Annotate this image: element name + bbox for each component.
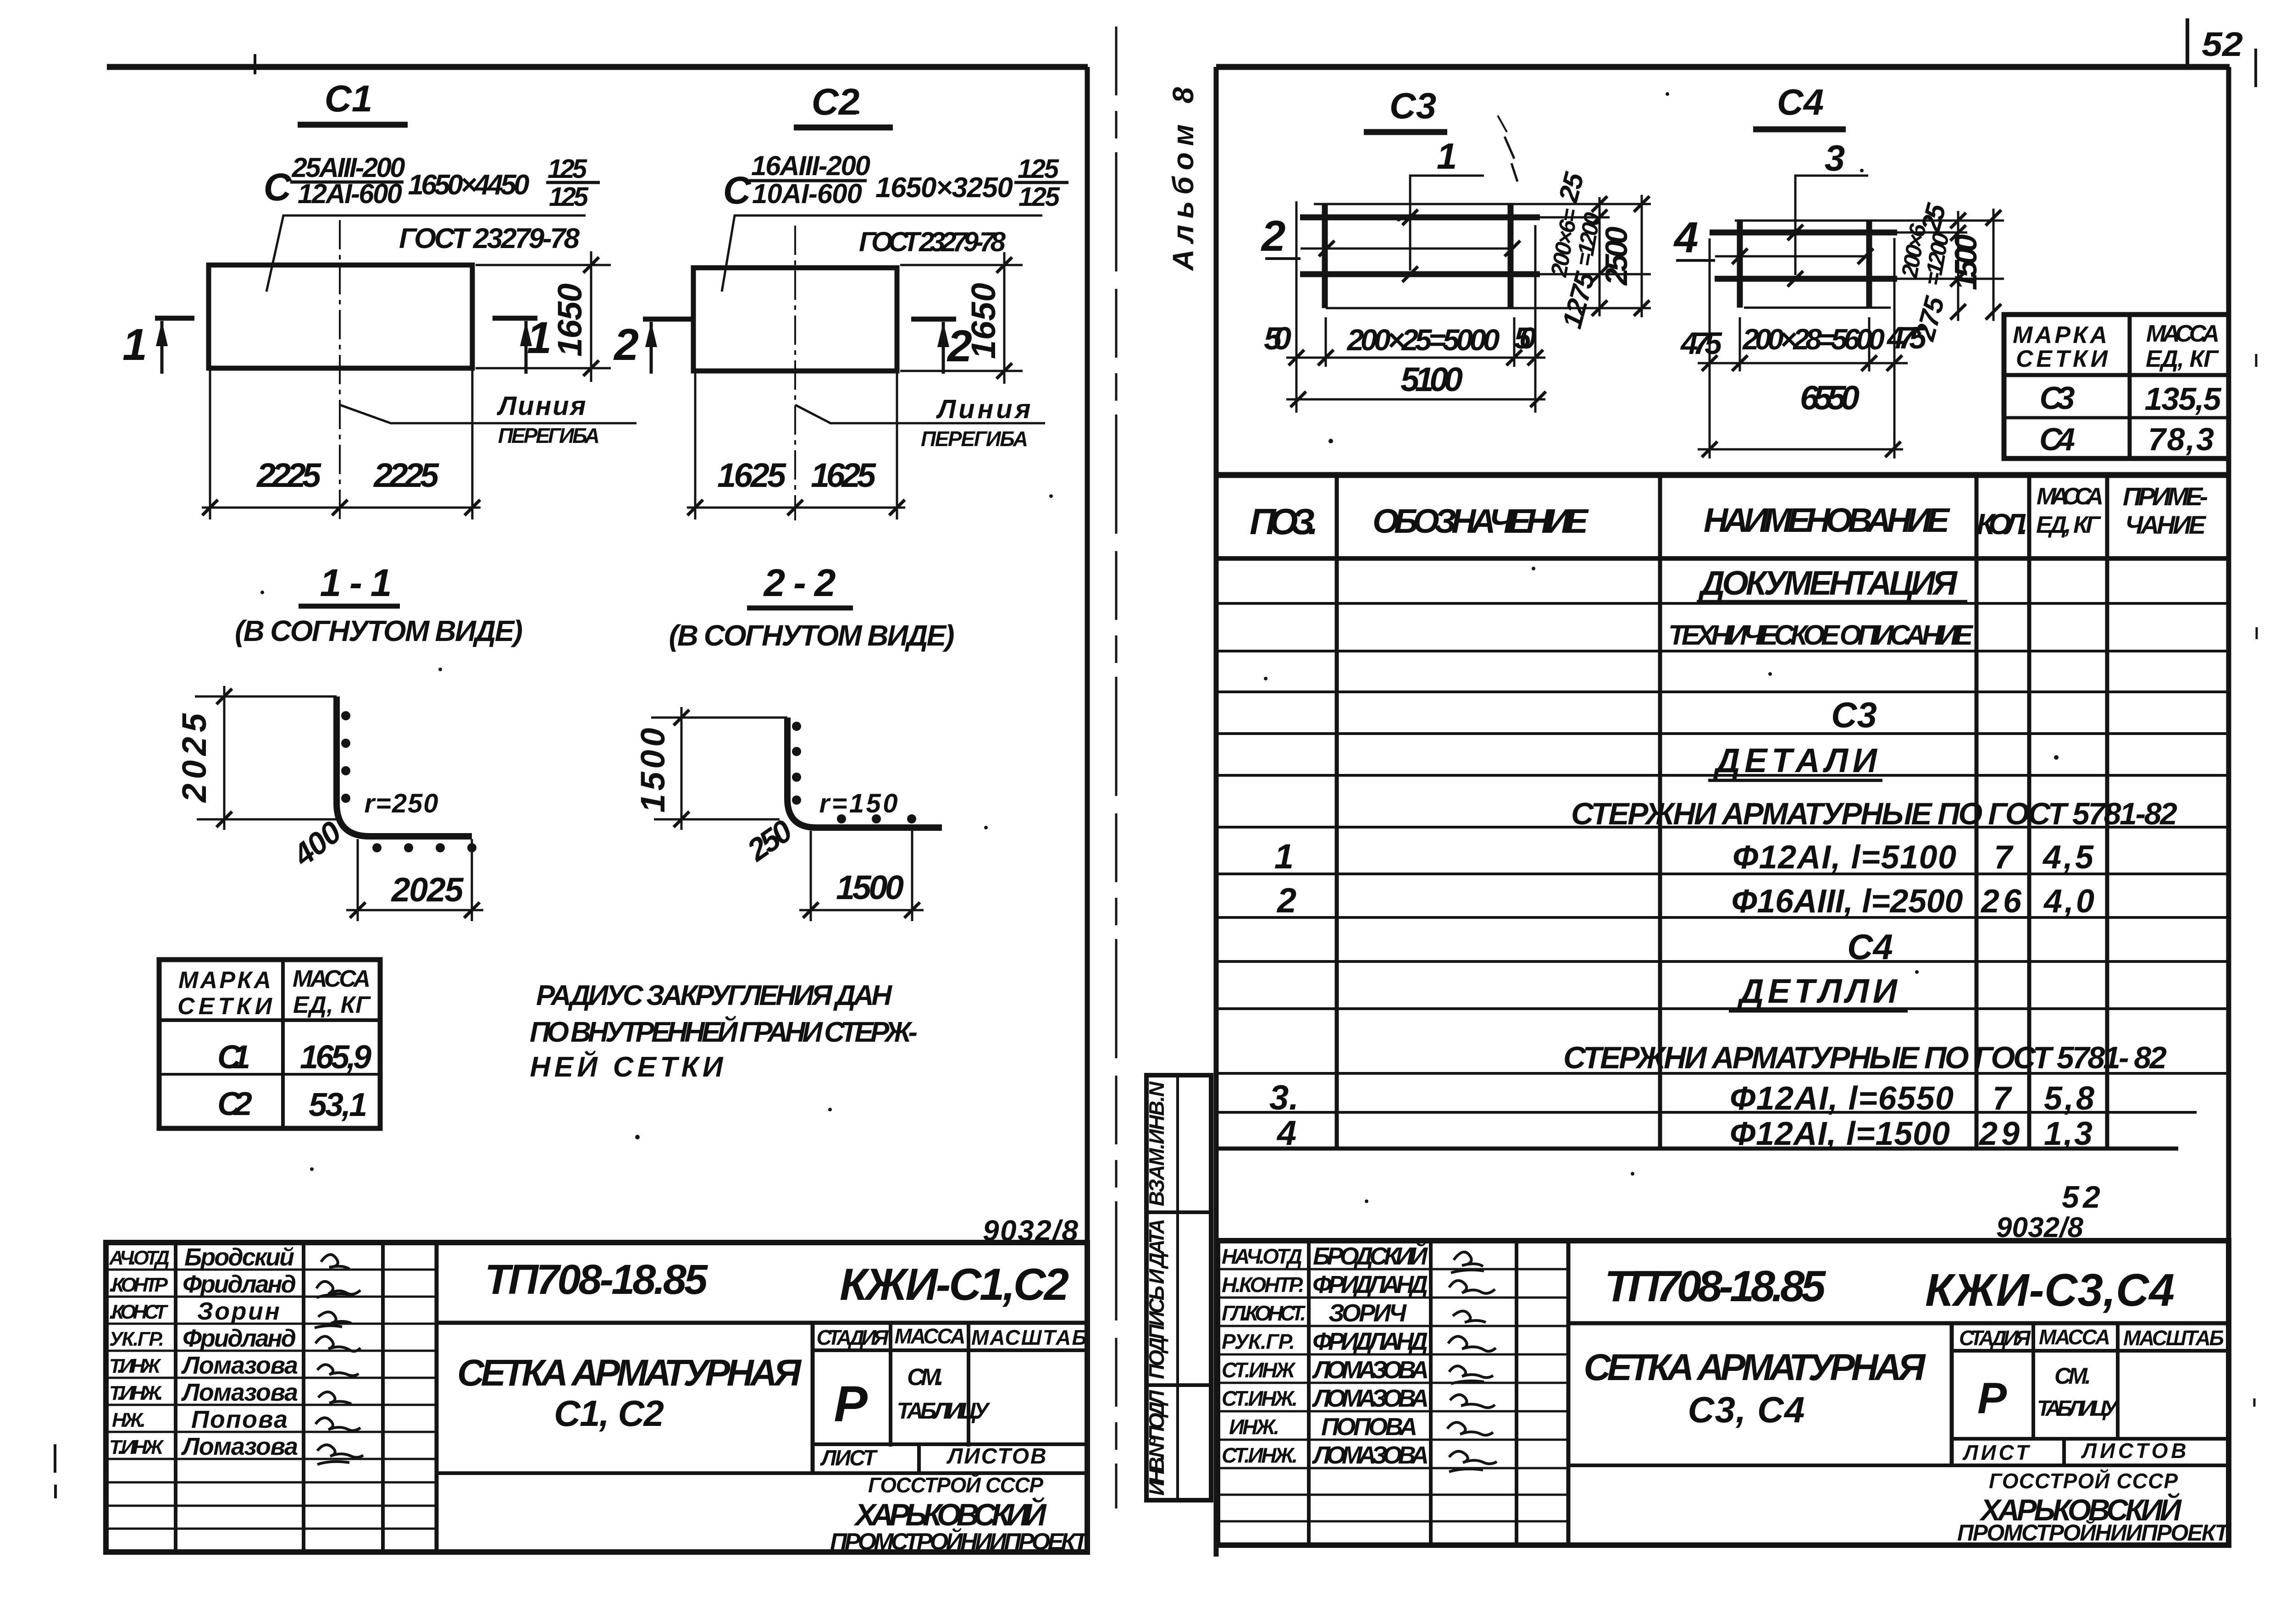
dimension 1650 right of C1 [476, 251, 611, 382]
svg-text:1: 1 [1274, 837, 1294, 876]
svg-text:4,5: 4,5 [2042, 839, 2094, 876]
right page right border [2226, 67, 2231, 1545]
svg-text:12AI-600: 12AI-600 [298, 178, 402, 209]
svg-text:C1: C1 [217, 1039, 250, 1076]
svg-text:ГОССТРОЙ СССР: ГОССТРОЙ СССР [868, 1473, 1043, 1497]
svg-text:МАССА: МАССА [293, 966, 371, 992]
svg-text:.КОНСТ: .КОНСТ [109, 1301, 168, 1323]
svg-text:С1, С2: С1, С2 [554, 1393, 664, 1434]
svg-text:1650: 1650 [964, 283, 1002, 359]
svg-text:1: 1 [122, 320, 147, 370]
svg-text:СЕТКА АРМАТУРНАЯ: СЕТКА АРМАТУРНАЯ [1584, 1347, 1926, 1388]
svg-text:СТ.ИНЖ.: СТ.ИНЖ. [1222, 1386, 1298, 1410]
svg-text:Ломазова: Ломазова [181, 1352, 298, 1379]
scan dashes lower left edge [54, 1444, 56, 1473]
dimension 1500 horizontal 2-2 [799, 831, 924, 921]
svg-text:ЕД, КГ: ЕД, КГ [2146, 346, 2219, 372]
fold line label C1 (Линия перегиба) [340, 391, 637, 447]
svg-text:165,9: 165,9 [300, 1039, 371, 1076]
svg-text:МАРКА: МАРКА [178, 967, 271, 994]
svg-text:Т.ИНЖ: Т.ИНЖ [109, 1436, 164, 1458]
cross-bar dots 1-1 horizontal leg [372, 843, 476, 852]
cross-bar dots 1-1 vertical leg [341, 711, 350, 803]
svg-text:ГОССТРОЙ СССР: ГОССТРОЙ СССР [1989, 1469, 2178, 1493]
right page left border [1214, 67, 1219, 1557]
mesh C3 cross bar 2b [1508, 205, 1514, 308]
mesh C4 longitudinal bar 3a [1710, 230, 1897, 236]
section mark 2 left of C2 [613, 319, 692, 374]
bent bar section 2-2 [787, 718, 942, 828]
svg-text:Ломазова: Ломазова [181, 1379, 298, 1406]
svg-text:НЖ.: НЖ. [112, 1409, 146, 1431]
svg-text:4: 4 [1276, 1114, 1296, 1153]
stage/mass/scale columns right page [1952, 1323, 2229, 1465]
section mark 1 left of C1 [122, 318, 194, 374]
role labels right page [1222, 1244, 1306, 1467]
label GOST 23279-78 under C2 formula with leader [722, 215, 1042, 292]
big section divider line under TP row [437, 1321, 1087, 1325]
cross-bar dots 2-2 vertical leg [792, 722, 801, 805]
row: Details heading 2 [1729, 972, 1908, 1011]
svg-text:78,3: 78,3 [2148, 421, 2214, 457]
svg-text:СТЕРЖНИ АРМАТУРНЫЕ ПО ГОСТ 578: СТЕРЖНИ АРМАТУРНЫЕ ПО ГОСТ 5781- 82 [1563, 1040, 2167, 1075]
mesh C3 longitudinal bar 1a [1300, 215, 1540, 221]
svg-text:4: 4 [1673, 213, 1699, 262]
svg-text:Т.ИНЖ: Т.ИНЖ [109, 1355, 161, 1377]
svg-text:1: 1 [1437, 136, 1457, 177]
svg-text:1650×4450: 1650×4450 [408, 169, 530, 201]
svg-text:Т.ИНЖ.: Т.ИНЖ. [109, 1382, 163, 1404]
svg-text:Фридланд: Фридланд [183, 1325, 296, 1352]
svg-text:ПО ВНУТРЕННЕЙ ГРАНИ СТЕРЖ-: ПО ВНУТРЕННЕЙ ГРАНИ СТЕРЖ- [530, 1016, 918, 1048]
svg-text:Линия: Линия [497, 391, 586, 421]
svg-text:C3: C3 [1831, 695, 1877, 735]
svg-text:1-1: 1-1 [320, 561, 392, 604]
svg-text:Р: Р [1977, 1374, 2007, 1423]
spec table frame [1217, 475, 2229, 1149]
organisation cell right page [1957, 1469, 2231, 1546]
svg-text:МАССА: МАССА [895, 1324, 966, 1348]
signatures right page [1447, 1252, 1497, 1472]
svg-text:ТЕХНИЧЕСКОЕ ОПИСАНИЕ: ТЕХНИЧЕСКОЕ ОПИСАНИЕ [1668, 619, 1974, 651]
svg-text:1650×3250: 1650×3250 [875, 172, 1013, 204]
svg-text:Ф12АI, l=1500: Ф12АI, l=1500 [1730, 1116, 1950, 1152]
section mark 1 right of C1 [493, 313, 552, 374]
svg-text:ВЗАМ.ИНВ.N: ВЗАМ.ИНВ.N [1145, 1081, 1168, 1206]
mesh C3 cross bar 2a [1322, 205, 1328, 308]
name row lines left page [106, 1270, 437, 1529]
svg-text:ТП708-18.85: ТП708-18.85 [1605, 1262, 1827, 1311]
C3 dimension 50|200x25=5000|50 [1264, 317, 1545, 367]
svg-text:СЕТКА АРМАТУРНАЯ: СЕТКА АРМАТУРНАЯ [457, 1352, 802, 1394]
list row left page [820, 1444, 1046, 1473]
svg-text:C4: C4 [1847, 927, 1893, 967]
svg-text:6550: 6550 [1800, 379, 1860, 417]
title block frame left page [106, 1243, 1087, 1552]
svg-text:1: 1 [527, 313, 552, 363]
C3 left extension line [1295, 201, 1298, 413]
svg-text:1650: 1650 [551, 283, 589, 357]
mesh C4 cross bar 4a [1737, 221, 1743, 308]
label GOST 23279-78 under C1 formula with leader into mesh [266, 215, 586, 292]
svg-text:ГОСТ 23279-78: ГОСТ 23279-78 [859, 226, 1006, 257]
svg-text:C4: C4 [2039, 421, 2075, 457]
mesh C4 longitudinal bar 3b [1715, 276, 1897, 282]
svg-text:1625: 1625 [717, 456, 787, 494]
svg-text:.КОНТР: .КОНТР [109, 1274, 168, 1296]
svg-text:ЧАНИЕ: ЧАНИЕ [2125, 510, 2207, 539]
svg-text:Ф16АIII, l=2500: Ф16АIII, l=2500 [1732, 883, 1963, 920]
dimension 2025 vertical 1-1 [175, 686, 337, 830]
fold line label C2 (Линия перегиба) [795, 394, 1045, 451]
svg-text:200×28=5600: 200×28=5600 [1742, 323, 1885, 356]
svg-text:3.: 3. [1269, 1078, 1299, 1117]
svg-text:АЧ.ОТД: АЧ.ОТД [109, 1247, 170, 1269]
svg-text:2025: 2025 [391, 871, 465, 909]
svg-text:C4: C4 [1777, 82, 1824, 122]
svg-text:1500: 1500 [836, 868, 904, 906]
svg-text:СТЕРЖНИ АРМАТУРНЫЕ ПО ГОСТ 578: СТЕРЖНИ АРМАТУРНЫЕ ПО ГОСТ 5781-82 [1571, 796, 2177, 831]
svg-text:C3: C3 [2040, 380, 2075, 416]
svg-text:СЕТКИ: СЕТКИ [177, 993, 273, 1020]
svg-text:ОБОЗНАЧЕНИЕ: ОБОЗНАЧЕНИЕ [1373, 502, 1589, 540]
dimension 2225+2225 under C1 [202, 368, 481, 519]
svg-text:ТП708-18.85: ТП708-18.85 [485, 1256, 709, 1303]
svg-text:50: 50 [1264, 320, 1291, 356]
svg-text:1625: 1625 [811, 456, 877, 494]
svg-text:ЛОМАЗОВА: ЛОМАЗОВА [1312, 1442, 1429, 1469]
svg-text:Зорин: Зорин [197, 1298, 280, 1325]
names right page [1312, 1242, 1429, 1469]
svg-text:125: 125 [549, 182, 589, 212]
role labels left page (cut at scan edge) [109, 1247, 170, 1458]
svg-text:БРОДСКИЙ: БРОДСКИЙ [1313, 1242, 1428, 1270]
row: Details heading 1 [1708, 741, 1882, 780]
svg-text:ФРИДЛАНД: ФРИДЛАНД [1312, 1271, 1428, 1298]
mesh C1 mark formula [264, 152, 600, 212]
svg-text:ТАБЛИЦУ: ТАБЛИЦУ [897, 1398, 991, 1424]
svg-text:C2: C2 [812, 81, 860, 123]
svg-text:2: 2 [613, 320, 639, 370]
svg-text:ПЕРЕГИБА: ПЕРЕГИБА [498, 424, 600, 447]
drawing name cell right page [1568, 1347, 2229, 1465]
svg-text:МАССА: МАССА [2146, 320, 2220, 347]
svg-text:ПОПОВА: ПОПОВА [1321, 1413, 1417, 1441]
svg-text:КЖИ-С1,С2: КЖИ-С1,С2 [840, 1259, 1069, 1309]
svg-text:НАЧ.ОТД: НАЧ.ОТД [1222, 1244, 1302, 1268]
C4 dimension 6550 [1698, 379, 1903, 457]
right page top border [1216, 64, 2230, 70]
svg-text:ИНЖ.: ИНЖ. [1229, 1415, 1279, 1439]
row: pos 3 bar Ф12АI L=6550 [1269, 1078, 2094, 1117]
svg-text:ЗОРИЧ: ЗОРИЧ [1328, 1299, 1407, 1327]
row: pos 4 bar Ф12АI L=1500 [1276, 1114, 2092, 1153]
svg-text:МАССА: МАССА [2037, 483, 2103, 510]
mesh C3 outline [1314, 204, 1584, 308]
svg-text:C3: C3 [1389, 85, 1436, 126]
svg-text:ЕД, КГ: ЕД, КГ [2036, 512, 2101, 538]
svg-text:C1: C1 [325, 78, 373, 120]
mesh C1 centre line (dash-dot) [339, 220, 341, 520]
svg-text:ЛОМАЗОВА: ЛОМАЗОВА [1312, 1356, 1429, 1384]
svg-text:ПОДПИСЬ И ДАТА: ПОДПИСЬ И ДАТА [1145, 1219, 1168, 1379]
svg-text:ПРОМСТРОЙНИИПРОЕКТ: ПРОМСТРОЙНИИПРОЕКТ [830, 1528, 1090, 1555]
svg-text:50: 50 [1514, 321, 1536, 355]
svg-text:МАРКА: МАРКА [2013, 322, 2107, 348]
svg-text:135,5: 135,5 [2145, 381, 2222, 417]
callout 3 (longitudinal bars C4) [1788, 138, 1868, 287]
cross-bar dots 2-2 horizontal leg [837, 814, 916, 823]
svg-text:Ф12АI, l=6550: Ф12АI, l=6550 [1730, 1080, 1954, 1117]
C4 right side extension lines [1897, 221, 2004, 279]
svg-text:ИНВ.N°ПОДЛ: ИНВ.N°ПОДЛ [1145, 1390, 1168, 1496]
svg-text:C: C [723, 169, 752, 212]
spec table row lines [1217, 603, 2229, 1149]
svg-text:200×25=5000: 200×25=5000 [1346, 323, 1500, 357]
organisation cell left page [830, 1473, 1090, 1555]
C3 chain dimension line (25 / 200x6=1200 / 1275) [1545, 169, 1607, 332]
stage/mass/scale columns left page [813, 1323, 1087, 1473]
svg-text:53,1: 53,1 [309, 1087, 367, 1123]
C4 left extension line [1709, 238, 1711, 458]
svg-text:ФРИДЛАНД: ФРИДЛАНД [1312, 1328, 1428, 1355]
svg-text:ДЕТАЛИ: ДЕТАЛИ [1713, 741, 1878, 779]
title C3 [1364, 85, 1447, 132]
dimension 2025 horizontal 1-1 [346, 839, 483, 921]
left page top border [107, 64, 1088, 70]
scan marks right edge [2254, 49, 2257, 87]
svg-text:7: 7 [1994, 839, 2014, 876]
signatures left page [315, 1254, 363, 1464]
svg-text:НЕЙ СЕТКИ: НЕЙ СЕТКИ [530, 1050, 724, 1083]
big section divider right page [1568, 1321, 2229, 1326]
svg-text:ПРИМЕ-: ПРИМЕ- [2123, 482, 2208, 511]
callout 4 (cross bars C4) [1673, 213, 1873, 264]
C3 right side extension lines [1534, 204, 1651, 308]
svg-text:ТАБЛИЦУ: ТАБЛИЦУ [2037, 1397, 2119, 1421]
scan specks [260, 92, 2059, 1203]
svg-text:7: 7 [1993, 1080, 2012, 1117]
svg-text:ГЛ.КОНСТ.: ГЛ.КОНСТ. [1222, 1301, 1306, 1325]
row: Documentation heading [1697, 564, 1967, 602]
svg-text:МАСШТАБ: МАСШТАБ [971, 1326, 1087, 1349]
names left page [181, 1243, 298, 1460]
C3 dimension 5100 [1286, 360, 1546, 407]
svg-text:Бродский: Бродский [184, 1243, 294, 1271]
svg-text:125: 125 [1018, 182, 1060, 212]
mesh C1 outline rectangle [209, 265, 472, 368]
note about bend radius [530, 980, 918, 1083]
mesh C4 outline [1735, 221, 1995, 308]
section mark 2 right of C2 [911, 319, 972, 374]
mesh C2 outline rectangle [693, 268, 897, 371]
svg-text:125: 125 [1018, 154, 1059, 184]
mesh C3 longitudinal bar 1b [1300, 271, 1540, 277]
margin strip frame [1146, 1075, 1211, 1500]
svg-text:475: 475 [1680, 326, 1722, 361]
callout 1 (longitudinal bars C3) [1402, 136, 1484, 282]
svg-text:СМ.: СМ. [2054, 1363, 2091, 1389]
C3 right extension line [1534, 225, 1537, 413]
mesh C2 centre line [794, 226, 796, 520]
C4 chain dimension line (25 / 200x6=1200 / 275) [1896, 199, 1966, 344]
title 1-1 [235, 561, 523, 647]
title C2 [794, 81, 893, 127]
svg-text:СТАДИЯ: СТАДИЯ [1959, 1326, 2031, 1350]
title C4 [1753, 82, 1846, 129]
svg-text:КОЛ.: КОЛ. [1976, 508, 2028, 541]
svg-text:52: 52 [2202, 25, 2243, 63]
svg-text:МАССА: МАССА [2039, 1325, 2110, 1349]
C4 right extension line [1893, 238, 1896, 458]
dimension 1650 right of C2 [900, 252, 1023, 384]
svg-text:Ломазова: Ломазова [181, 1433, 298, 1460]
svg-text:1500: 1500 [1948, 234, 1983, 290]
svg-text:C: C [264, 166, 292, 209]
svg-text:Ф12АI, l=5100: Ф12АI, l=5100 [1733, 839, 1956, 876]
svg-text:10AI-600: 10AI-600 [752, 178, 862, 209]
svg-text:УК.ГР.: УК.ГР. [109, 1328, 164, 1350]
svg-text:2: 2 [1276, 881, 1296, 920]
drawing name cell [437, 1352, 1087, 1473]
scan mark top-left tick [254, 54, 256, 74]
svg-text:СТ.ИНЖ.: СТ.ИНЖ. [1222, 1443, 1298, 1467]
svg-text:2225: 2225 [256, 456, 322, 494]
svg-text:НАИМЕНОВАНИЕ: НАИМЕНОВАНИЕ [1704, 501, 1951, 539]
svg-text:ДОКУМЕНТАЦИЯ: ДОКУМЕНТАЦИЯ [1698, 564, 1958, 602]
svg-text:ЛИСТ: ЛИСТ [820, 1446, 878, 1470]
svg-text:Р: Р [834, 1376, 868, 1432]
svg-text:r=250: r=250 [365, 789, 438, 818]
svg-text:125: 125 [548, 154, 587, 184]
callout 2 (cross bars C3) [1261, 212, 1520, 260]
bent bar section 1-1 [337, 696, 472, 836]
svg-text:ЛОМАЗОВА: ЛОМАЗОВА [1312, 1385, 1429, 1412]
svg-text:Н.КОНТР.: Н.КОНТР. [1222, 1273, 1304, 1297]
svg-text:РАДИУС ЗАКРУГЛЕНИЯ ДАН: РАДИУС ЗАКРУГЛЕНИЯ ДАН [536, 980, 892, 1011]
left page right border [1085, 67, 1090, 1552]
svg-text:ЕД, КГ: ЕД, КГ [293, 992, 371, 1018]
svg-text:РУК.ГР.: РУК.ГР. [1222, 1330, 1295, 1353]
svg-text:ПОЗ.: ПОЗ. [1250, 501, 1318, 542]
title block frame right page [1218, 1241, 2229, 1545]
spec table header texts [1250, 482, 2208, 542]
svg-text:5100: 5100 [1400, 360, 1463, 398]
dimension 1500 vertical 2-2 [634, 707, 787, 830]
C4 overall dimension 1500 [1948, 209, 2001, 321]
svg-text:СМ.: СМ. [907, 1364, 944, 1391]
svg-text:СЕТКИ: СЕТКИ [2016, 346, 2109, 372]
title C1 [298, 78, 408, 125]
scan mark tick crossing right page top border [2186, 18, 2189, 70]
dimension 1625+1625 under C2 [687, 371, 905, 519]
svg-text:2500: 2500 [1599, 226, 1634, 286]
svg-text:1,3: 1,3 [2044, 1116, 2092, 1152]
svg-text:Линия: Линия [936, 394, 1031, 424]
svg-text:2225: 2225 [373, 456, 440, 494]
fold line between pages [1115, 27, 1118, 1508]
row: pos 1 bar Ф12АI L=5100 [1274, 837, 2094, 876]
svg-text:(В СОГНУТОМ ВИДЕ): (В СОГНУТОМ ВИДЕ) [669, 619, 955, 652]
svg-text:СТАДИЯ: СТАДИЯ [817, 1326, 889, 1349]
svg-text:МАСШТАБ: МАСШТАБ [2123, 1326, 2224, 1350]
svg-text:C2: C2 [217, 1086, 252, 1122]
svg-text:СТ.ИНЖ: СТ.ИНЖ [1222, 1358, 1296, 1382]
C3 overall dimension 2500 [1599, 195, 1650, 317]
C4 dimension 475|200x28=5600|475 [1680, 317, 1927, 371]
svg-text:Фридланд: Фридланд [183, 1270, 296, 1298]
svg-text:ГОСТ 23279-78: ГОСТ 23279-78 [399, 223, 580, 254]
svg-text:4,0: 4,0 [2043, 883, 2094, 920]
svg-text:5,8: 5,8 [2044, 1080, 2094, 1117]
svg-text:2-2: 2-2 [763, 561, 836, 604]
row: pos 2 bar Ф16АIII L=2500 [1276, 881, 2094, 920]
svg-text:ХАРЬКОВСКИЙ: ХАРЬКОВСКИЙ [853, 1497, 1047, 1532]
list row right page [1962, 1439, 2186, 1465]
svg-text:3: 3 [1825, 138, 1845, 178]
mesh C4 cross bar 4b [1866, 221, 1872, 308]
svg-text:С3, С4: С3, С4 [1688, 1389, 1805, 1430]
svg-text:ПЕРЕГИБА: ПЕРЕГИБА [921, 427, 1028, 451]
svg-text:16AIII-200: 16AIII-200 [751, 150, 870, 181]
svg-text:(В СОГНУТОМ ВИДЕ): (В СОГНУТОМ ВИДЕ) [235, 614, 523, 647]
title 2-2 [669, 561, 955, 652]
scan scratches near C3 title [1505, 137, 1514, 159]
mesh C2 mark formula [723, 150, 1068, 212]
name row lines right page [1218, 1269, 1568, 1521]
svg-text:2: 2 [1261, 212, 1286, 260]
svg-text:КЖИ-С3,С4: КЖИ-С3,С4 [1925, 1265, 2175, 1316]
svg-text:ПРОМСТРОЙНИИПРОЕКТ: ПРОМСТРОЙНИИПРОЕКТ [1957, 1519, 2231, 1546]
